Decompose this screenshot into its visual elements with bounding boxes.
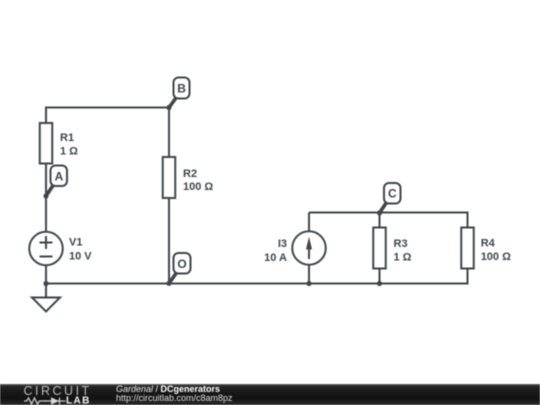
svg-text:I3: I3 [278,238,287,250]
wire I3 column top [308,213,310,233]
svg-text:B: B [177,82,186,96]
junction dot R3 bottom [377,281,382,286]
svg-text:R1: R1 [60,132,74,144]
wire R3 column bottom [379,269,381,284]
wire R3 column top [379,213,381,228]
junction dot I3 bottom [306,281,311,286]
footer bar [0,384,540,405]
svg-text:1 Ω: 1 Ω [60,145,78,157]
svg-text:10 V: 10 V [69,250,92,262]
wire top-left horizontal B to A column [46,107,169,109]
svg-text:C: C [388,187,397,201]
node A [43,166,67,199]
ground [32,284,60,312]
resistor R3 [373,228,411,269]
junction dot ground [43,281,48,286]
voltage source V1 [29,232,92,266]
node C [377,183,401,215]
resistor R2 [163,157,214,198]
wire R4 column bottom [467,269,469,285]
svg-text:V1: V1 [69,237,82,249]
resistor R4 [461,228,511,269]
svg-text:R2: R2 [183,168,197,180]
wire R2 column top [168,108,170,158]
wire right top horizontal [309,212,468,214]
current source I3 [264,231,326,265]
wire V1 to ground junction [45,265,47,284]
svg-text:O: O [177,257,186,271]
wire R4 column top [467,212,469,228]
svg-text:R4: R4 [481,237,496,249]
wire I3 column bottom [308,265,310,284]
wire left column R1 to V1 [45,164,47,233]
node B [166,78,189,111]
CircuitLab logo [14,384,114,405]
svg-text:R3: R3 [394,238,408,250]
svg-text:A: A [55,170,64,184]
resistor R1 [40,123,78,164]
svg-text:10 A: 10 A [264,252,287,264]
wire bottom horizontal main [46,283,468,285]
svg-text:LAB: LAB [66,396,91,405]
wire R2 column bottom [168,198,170,284]
svg-text:100 Ω: 100 Ω [481,251,511,263]
wire left column top [45,107,47,124]
svg-text:100 Ω: 100 Ω [183,181,213,193]
svg-text:1 Ω: 1 Ω [394,251,412,263]
node O [166,253,190,286]
